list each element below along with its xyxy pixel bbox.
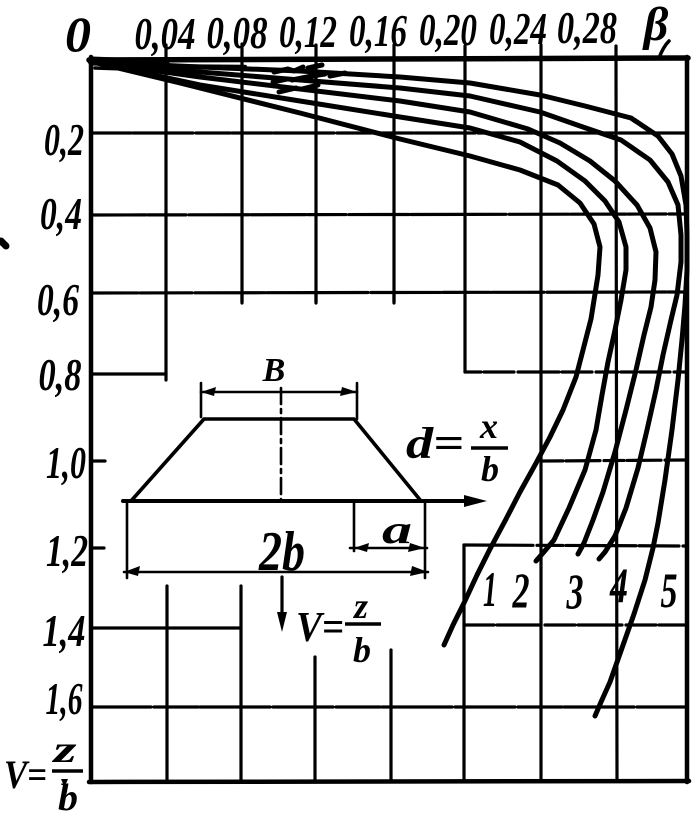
svg-text:0,08: 0,08 [207, 7, 268, 58]
svg-text:0: 0 [65, 6, 91, 62]
inset centerline (dash-dot) [280, 388, 283, 501]
border frame right [685, 57, 690, 782]
svg-text:d=: d= [406, 419, 464, 468]
svg-text:5: 5 [661, 562, 678, 618]
grid column x=616 [616, 60, 617, 781]
grid row 1.6 [91, 705, 687, 708]
axis label 1,0 [46, 437, 86, 488]
svg-text:β: β [642, 0, 669, 51]
grid column x=316 [315, 60, 316, 781]
grid column x=465 [464, 60, 465, 781]
curve 4 [93, 62, 681, 559]
inset base line extended with arrow [123, 495, 487, 507]
dimension a: line with arrows [350, 543, 427, 552]
axis label 0,28 [557, 2, 617, 53]
grid row 1.4 right segment (label box bottom) [464, 623, 687, 626]
curve label 1 [483, 561, 497, 617]
grid row 1.2 tick [91, 546, 104, 549]
grid column x=166 [166, 60, 167, 781]
grid column x=242 [241, 60, 242, 781]
grid row 1.2 right segment (label box top) [464, 545, 687, 546]
scan speck at left edge [1, 241, 6, 246]
axis label beta [642, 0, 669, 51]
curve label 5 [661, 562, 678, 618]
axis label 0,04 [135, 8, 196, 59]
svg-text:z: z [50, 729, 76, 771]
grid row 0.8 left stub [91, 372, 166, 375]
grid row 0.8 right segment [465, 370, 687, 373]
axis label 1,6 [46, 673, 83, 724]
svg-text:1: 1 [483, 561, 497, 617]
curve 1 [93, 62, 600, 645]
inset label a [382, 507, 412, 552]
svg-text:b: b [353, 630, 371, 670]
grid row 0.4 [91, 214, 687, 215]
dimension B: line with arrows [201, 387, 357, 396]
svg-text:3: 3 [566, 563, 584, 619]
svg-text:0,6: 0,6 [37, 274, 79, 325]
border frame top [89, 58, 688, 60]
axis label 0,16 [349, 5, 407, 56]
curve label 4 [609, 557, 628, 613]
axis ticks above top border [166, 41, 669, 59]
grid row 1.0 tick [91, 459, 105, 462]
grid row 0.6 [91, 292, 687, 293]
axis label 0,4 [40, 188, 82, 239]
svg-text:1,2: 1,2 [46, 525, 88, 576]
axis label 1,4 [43, 605, 86, 656]
svg-text:0,20: 0,20 [419, 4, 477, 55]
curve label 2 [512, 562, 530, 618]
dimension a: extension line [353, 503, 356, 551]
svg-text:0,16: 0,16 [349, 5, 407, 56]
svg-text:z: z [352, 586, 368, 626]
grid row 1.0 right segment [543, 460, 687, 461]
axis label 0,8 [39, 349, 82, 400]
svg-text:0,2: 0,2 [44, 114, 84, 165]
svg-text:0,12: 0,12 [279, 6, 337, 57]
svg-text:4: 4 [609, 557, 628, 613]
svg-text:V=: V= [296, 605, 344, 651]
axis label 0,12 [279, 6, 337, 57]
svg-text:V=: V= [4, 752, 47, 797]
svg-text:B: B [262, 352, 286, 389]
axis label 0,08 [207, 7, 268, 58]
svg-text:1,0: 1,0 [46, 437, 86, 488]
dimension 2b: line with arrows [124, 566, 428, 576]
svg-text:1,6: 1,6 [46, 673, 83, 724]
svg-text:1,4: 1,4 [43, 605, 86, 656]
svg-text:0,4: 0,4 [40, 188, 82, 239]
smudge marks (illegible annotation) [273, 65, 345, 92]
svg-text:0,28: 0,28 [557, 2, 617, 53]
svg-text:0,04: 0,04 [135, 8, 196, 59]
axis label 0,24 [489, 3, 547, 54]
curve 3 [93, 62, 656, 554]
curve 2 [93, 62, 626, 561]
dimension B: extension lines [201, 383, 357, 419]
svg-text:2b: 2b [258, 521, 305, 583]
grid row 1.4 left segment [91, 626, 240, 629]
label d = x/b [406, 406, 508, 489]
svg-text:b: b [58, 777, 78, 814]
axis label 1,2 [46, 525, 88, 576]
small stubs below row 0.6 [242, 293, 394, 303]
curve label 3 [566, 563, 584, 619]
inset label 2b [258, 521, 305, 583]
grid column x=394 [391, 60, 394, 781]
svg-text:a: a [382, 507, 412, 552]
inset label V = z/b [296, 586, 381, 670]
svg-text:0,24: 0,24 [489, 3, 547, 54]
svg-text:0,8: 0,8 [39, 349, 82, 400]
inset label B [262, 352, 286, 389]
svg-text:x: x [479, 406, 498, 446]
axis label 0,2 [44, 114, 84, 165]
grid column x=541 [539, 60, 542, 781]
svg-text:2: 2 [512, 562, 530, 618]
axis label 0 (top-left) [65, 6, 91, 62]
axis label 0,6 [37, 274, 79, 325]
inset trapezoid (embankment section) [131, 419, 421, 501]
bottom-left axis label V=z/b [4, 729, 83, 819]
curve 5 [93, 62, 687, 716]
corner ink blob [92, 61, 245, 71]
border frame left [89, 57, 94, 782]
grid row 0.2 [91, 131, 687, 134]
axis label 0,20 [419, 4, 477, 55]
svg-text:b: b [481, 449, 499, 489]
inset V arrow (downward) [277, 577, 287, 632]
border frame bottom [89, 781, 689, 782]
dimension 2b: extension lines [127, 503, 425, 578]
